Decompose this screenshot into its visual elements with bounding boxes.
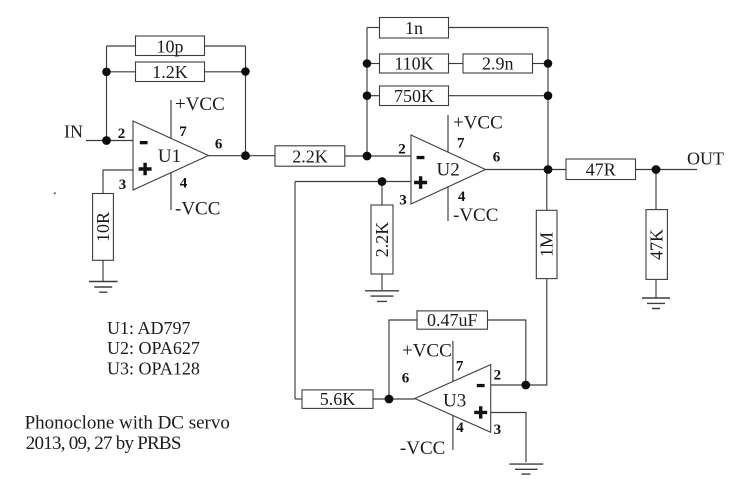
svg-text:U1: AD797: U1: AD797 <box>107 318 191 338</box>
op-amp U3 <box>415 365 491 433</box>
capacitor 2.9n body <box>463 54 533 73</box>
wire IN lead <box>86 140 107 142</box>
resistor 10R body <box>93 194 114 261</box>
node U1 output <box>241 151 250 160</box>
node OUT junction <box>652 165 661 174</box>
resistor 2.2K shunt body <box>371 205 393 274</box>
svg-text:U1: U1 <box>158 146 181 167</box>
svg-text:6: 6 <box>402 371 410 387</box>
wire 750K left lead <box>367 95 380 97</box>
svg-text:+VCC: +VCC <box>453 113 503 134</box>
wire 1n right lead <box>449 27 549 29</box>
capacitor 1n body <box>380 18 449 39</box>
node left rail 110K <box>363 59 372 68</box>
wire U2 pin 4 bar <box>447 187 449 221</box>
pin 3 of U2 <box>399 193 407 209</box>
wire U2 pin 7 bar <box>447 115 449 152</box>
svg-text:2: 2 <box>398 142 406 158</box>
ground under 10R <box>89 282 118 293</box>
plus sign U3 <box>474 406 487 418</box>
wire left feedback vertical <box>106 46 108 141</box>
svg-text:2.2K: 2.2K <box>372 222 392 258</box>
pin 2 of U2 <box>398 142 406 158</box>
svg-text:6: 6 <box>493 150 501 166</box>
value 0.47uF <box>427 310 478 330</box>
wire U1 pin 7 bar <box>170 100 172 139</box>
wire 2.2K shunt top lead <box>381 182 383 206</box>
label U3 <box>443 391 466 412</box>
ground under U3 pin 3 <box>509 464 543 474</box>
svg-text:2: 2 <box>118 126 126 142</box>
wire U1 pin 2 <box>107 140 134 142</box>
svg-text:2013, 09, 27 by PRBS: 2013, 09, 27 by PRBS <box>26 433 181 454</box>
wire 5.6K left lead <box>295 398 302 400</box>
wire U3 pin 7 bar <box>452 341 454 382</box>
label +VCC of U2 <box>453 113 503 134</box>
value 1.2K <box>152 62 188 82</box>
capacitor 10p body <box>136 36 205 56</box>
wire U3 pin 3 to ground <box>491 413 526 463</box>
wire U1 output to 2.2K <box>209 155 276 157</box>
svg-text:47R: 47R <box>586 160 616 180</box>
svg-text:U2: OPA627: U2: OPA627 <box>107 338 200 358</box>
capacitor 0.47uF body <box>417 311 488 329</box>
svg-text:+VCC: +VCC <box>402 341 452 362</box>
wire right rail of U2 feedback <box>547 28 549 170</box>
svg-text:3: 3 <box>399 193 407 209</box>
pin 2 of U3 <box>494 367 502 383</box>
wire 2.9n right lead <box>533 63 549 65</box>
svg-text:1n: 1n <box>405 18 423 38</box>
note U1 type <box>107 318 191 338</box>
pin 6 of U2 <box>493 150 501 166</box>
wire 2.2K to U2 pin 2 <box>345 155 411 157</box>
node left rail 750K <box>363 91 372 100</box>
op-amp U1 <box>133 121 209 190</box>
svg-text:110K: 110K <box>394 54 433 74</box>
svg-text:5.6K: 5.6K <box>320 389 356 409</box>
svg-text:10p: 10p <box>157 36 184 56</box>
resistor 1.2K body <box>136 62 205 82</box>
pin 7 of U3 <box>456 359 464 375</box>
label IN <box>64 122 83 142</box>
value 2.9n <box>482 54 514 74</box>
svg-text:4: 4 <box>180 176 188 192</box>
label -VCC of U3 <box>400 438 445 459</box>
wire U2 pin 3 row <box>295 181 411 183</box>
node U2 output <box>544 165 553 174</box>
svg-text:OUT: OUT <box>687 149 724 169</box>
wire 10p left lead <box>107 45 136 47</box>
value 2.2K shunt vertical <box>372 222 392 258</box>
wire 1M top lead <box>546 170 548 211</box>
value 2.2K series <box>292 146 328 166</box>
minus sign U1 <box>140 141 148 144</box>
ground under 47K <box>642 298 670 309</box>
wire 1n left lead <box>367 27 380 29</box>
value 47K vertical <box>647 229 667 260</box>
label -VCC of U1 <box>175 199 220 220</box>
pin 7 of U2 <box>457 136 465 152</box>
wire U3 pin 4 bar <box>452 416 454 451</box>
svg-text:7: 7 <box>456 359 464 375</box>
label OUT <box>687 149 724 169</box>
wire 0.47uF right branch <box>488 320 526 385</box>
minus sign U2 <box>417 156 425 159</box>
svg-text:2.9n: 2.9n <box>482 54 514 74</box>
value 10p <box>157 36 184 56</box>
label +VCC of U1 <box>175 94 225 115</box>
wire 10R to ground <box>102 260 104 281</box>
label -VCC of U2 <box>453 205 498 226</box>
wire 47K to ground <box>655 279 657 297</box>
plus sign U1 <box>139 163 152 175</box>
svg-text:1.2K: 1.2K <box>152 62 188 82</box>
svg-text:U3: U3 <box>443 391 466 412</box>
svg-text:-VCC: -VCC <box>453 205 498 226</box>
svg-text:+VCC: +VCC <box>175 94 225 115</box>
note U2 type <box>107 338 200 358</box>
svg-text:U2: U2 <box>436 160 459 181</box>
svg-text:3: 3 <box>119 177 127 193</box>
svg-text:4: 4 <box>456 420 464 436</box>
resistor 1M body <box>536 210 557 278</box>
node IN junction <box>102 136 111 145</box>
pin 6 of U3 <box>402 371 410 387</box>
wire servo feedback vertical <box>294 182 296 400</box>
pin 4 of U1 <box>180 176 188 192</box>
pin 6 of U1 <box>215 136 223 152</box>
wire 110K to 2.9n <box>449 63 464 65</box>
svg-text:-VCC: -VCC <box>400 438 445 459</box>
node right rail 750K <box>544 91 553 100</box>
value 750K <box>394 86 434 106</box>
resistor 750K body <box>380 86 449 106</box>
value 5.6K <box>320 389 356 409</box>
value 1n <box>405 18 423 38</box>
caption title <box>25 413 230 434</box>
node feedback right <box>241 67 250 76</box>
wire 1.2K right lead <box>205 71 246 73</box>
wire right feedback vertical <box>245 46 247 156</box>
wire 5.6K to U3 pin 6 <box>373 398 415 400</box>
resistor 110K body <box>380 54 449 73</box>
svg-text:47K: 47K <box>647 229 667 260</box>
svg-text:750K: 750K <box>394 86 434 106</box>
node right rail 2.9n <box>544 59 553 68</box>
label U2 <box>436 160 459 181</box>
caption date <box>26 433 181 454</box>
wire U1 pin 4 bar <box>170 173 172 210</box>
label U1 <box>158 146 181 167</box>
svg-text:7: 7 <box>457 136 465 152</box>
wire 2.2K shunt to ground <box>381 274 383 290</box>
node U2 pin 3 <box>378 177 387 186</box>
svg-text:1M: 1M <box>537 232 557 257</box>
svg-text:IN: IN <box>64 122 83 142</box>
wire 0.47uF left branch <box>389 320 417 399</box>
pin 4 of U3 <box>456 420 464 436</box>
resistor 47R body <box>566 159 636 180</box>
svg-text:6: 6 <box>215 136 223 152</box>
plus sign U2 <box>414 176 427 188</box>
wire 1M bottom to U3 pin 2 row <box>491 279 547 385</box>
svg-text:2.2K: 2.2K <box>292 146 328 166</box>
svg-text:Phonoclone with DC servo: Phonoclone with DC servo <box>25 413 230 434</box>
pin 7 of U1 <box>179 124 187 140</box>
svg-text:4: 4 <box>458 189 466 205</box>
svg-text:3: 3 <box>494 422 502 438</box>
wire U2 output to 47R <box>486 169 567 171</box>
svg-text:-VCC: -VCC <box>175 199 220 220</box>
resistor 2.2K series body <box>275 146 345 166</box>
node U3 pin 6 <box>385 395 394 404</box>
node left rail pin2 <box>363 152 372 161</box>
op-amp U2 <box>411 135 486 204</box>
ground under 2.2K shunt <box>365 291 399 302</box>
svg-text:U3: OPA128: U3: OPA128 <box>107 358 200 378</box>
label +VCC of U3 <box>402 341 452 362</box>
wire U1 pin 3 <box>103 170 133 194</box>
svg-text:10R: 10R <box>93 212 113 242</box>
note U3 type <box>107 358 200 378</box>
svg-text:7: 7 <box>179 124 187 140</box>
wire 750K right lead <box>449 95 549 97</box>
svg-text:0.47uF: 0.47uF <box>427 310 478 330</box>
pin 2 of U1 <box>118 126 126 142</box>
resistor 5.6K body <box>302 390 373 409</box>
value 10R vertical <box>93 212 113 242</box>
svg-text:2: 2 <box>494 367 502 383</box>
value 110K <box>394 54 433 74</box>
pin 3 of U1 <box>119 177 127 193</box>
value 1M vertical <box>537 232 557 257</box>
wire 47K top lead <box>655 170 657 210</box>
resistor 47K body <box>646 210 667 280</box>
wire 110K left lead <box>367 63 380 65</box>
wire left rail of U2 feedback <box>366 28 368 157</box>
pin 4 of U2 <box>458 189 466 205</box>
minus sign U3 <box>477 384 485 387</box>
wire 47R to OUT <box>636 169 698 171</box>
node U3 pin 2 <box>521 381 530 390</box>
stray speck <box>54 192 56 194</box>
wire 1.2K left lead <box>107 71 136 73</box>
value 47R <box>586 160 616 180</box>
wire 10p right lead <box>205 45 246 47</box>
node feedback left <box>102 68 111 77</box>
pin 3 of U3 <box>494 422 502 438</box>
